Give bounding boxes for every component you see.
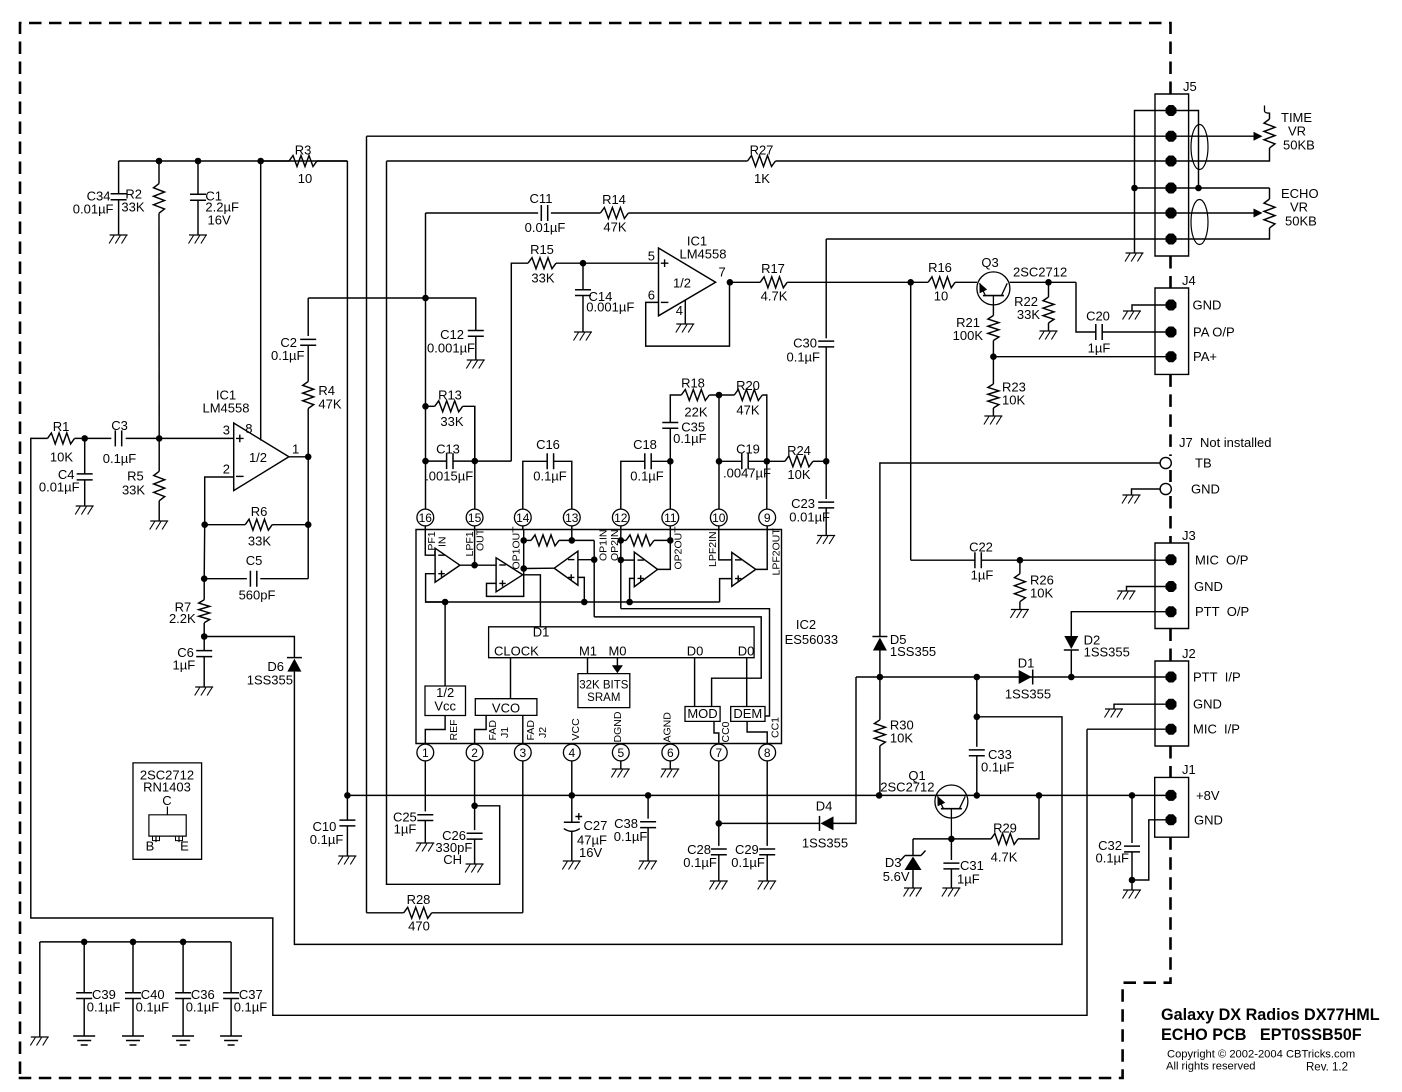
label LPF1 IN xyxy=(426,531,449,556)
label OP1IN OP2IN xyxy=(597,529,621,561)
capacitor C22 xyxy=(969,540,1171,583)
amp E plus riser from bus xyxy=(720,579,732,602)
capacitor C19 xyxy=(719,442,771,481)
svg-text:0.1µF: 0.1µF xyxy=(186,1000,220,1015)
svg-text:C30: C30 xyxy=(793,336,817,351)
wire C2 top to C12 node xyxy=(308,297,425,299)
svg-text:C3: C3 xyxy=(111,418,128,433)
ground C6 xyxy=(195,687,214,696)
label J1 pins xyxy=(1194,788,1223,827)
amp A plus riser to bus xyxy=(426,574,446,602)
connector J4 box xyxy=(1155,273,1196,374)
svg-text:1/2: 1/2 xyxy=(249,450,267,465)
op-amp D xyxy=(634,552,657,587)
resistor R2 xyxy=(121,161,164,215)
wire J2 GND xyxy=(1114,704,1171,709)
connector J1 box xyxy=(1155,762,1196,837)
svg-text:33K: 33K xyxy=(1017,307,1040,322)
svg-text:D1: D1 xyxy=(533,625,550,640)
ground C1 xyxy=(189,235,208,244)
svg-text:R18: R18 xyxy=(681,376,705,391)
svg-text:DEM: DEM xyxy=(733,706,762,721)
amp D output wire xyxy=(658,540,671,569)
IC2 pin 11 circle xyxy=(662,509,679,526)
wire CH loop to R27 line xyxy=(387,161,500,884)
svg-text:15: 15 xyxy=(468,511,482,525)
svg-text:Galaxy DX Radios DX77HML: Galaxy DX Radios DX77HML xyxy=(1161,1006,1380,1024)
node R18-R20-pin10 xyxy=(709,392,734,399)
J5 pin 5 xyxy=(1166,208,1177,219)
capacitor C14 xyxy=(575,263,634,332)
wire R27 line y161 xyxy=(387,160,748,162)
label J2 pins xyxy=(1193,670,1241,737)
ground R22 xyxy=(1039,331,1058,340)
wire MIC O/P line xyxy=(911,559,975,561)
svg-text:1SS355: 1SS355 xyxy=(247,673,293,688)
revision xyxy=(1306,1062,1348,1074)
wire pin3 FAD J2 drop xyxy=(522,761,524,913)
ground C34 xyxy=(109,235,128,244)
svg-text:0.001µF: 0.001µF xyxy=(586,300,634,315)
wire C12 node xyxy=(422,213,429,509)
svg-text:16V: 16V xyxy=(579,845,602,860)
resistor R15 xyxy=(528,242,659,286)
svg-text:7: 7 xyxy=(715,746,722,760)
svg-text:J7 Not installed: J7 Not installed xyxy=(1179,435,1272,450)
wire Q3 collector to R22 node xyxy=(1010,279,1076,286)
svg-text:D0: D0 xyxy=(687,643,704,658)
svg-text:1SS355: 1SS355 xyxy=(890,644,936,659)
resistor R13 xyxy=(422,388,475,462)
svg-text:4: 4 xyxy=(568,746,575,760)
svg-text:C20: C20 xyxy=(1086,309,1110,324)
IC2 top pin stubs xyxy=(425,526,767,530)
ground C37 earth xyxy=(220,1036,242,1045)
label LPF2IN xyxy=(707,531,719,567)
svg-text:REF: REF xyxy=(448,720,460,741)
svg-text:0.01µF: 0.01µF xyxy=(73,202,114,217)
label J3 pins xyxy=(1194,552,1249,619)
capacitor C27 electrolytic xyxy=(564,795,608,861)
ground C36 earth xyxy=(172,1036,194,1045)
J3 pin GND xyxy=(1166,581,1177,592)
svg-text:J2: J2 xyxy=(1182,646,1196,661)
node IC1b output xyxy=(727,279,734,286)
label OP1OUT xyxy=(510,526,522,570)
svg-text:10K: 10K xyxy=(1030,586,1053,601)
svg-text:16: 16 xyxy=(419,511,433,525)
J3 pin MIC O/P xyxy=(1166,554,1177,565)
wire D6 to bottom bus xyxy=(294,672,1062,945)
diode D3 zener 5.6V xyxy=(883,839,926,888)
svg-text:8: 8 xyxy=(245,421,252,436)
wire D4 line xyxy=(719,822,820,824)
svg-text:5.6V: 5.6V xyxy=(883,869,910,884)
ground C23 xyxy=(817,536,836,545)
wire pin11 riser xyxy=(669,429,671,510)
svg-text:R24: R24 xyxy=(787,443,811,458)
capacitor C26 xyxy=(435,828,482,867)
svg-text:2: 2 xyxy=(471,746,478,760)
label AGND pin6 xyxy=(661,712,673,743)
node C3-R5 junction xyxy=(156,435,163,442)
svg-text:R14: R14 xyxy=(602,192,626,207)
ground pin6 AGND xyxy=(661,769,680,778)
wire J5 pin6 ECHO bottom xyxy=(1171,228,1270,239)
IC2 bottom pin stubs xyxy=(425,743,767,746)
title ECHO PCB EPT0SSB50F xyxy=(1161,1026,1362,1044)
wire D4 to PTT corner xyxy=(834,677,857,823)
wire C20 branch xyxy=(1076,282,1096,332)
node rail junctions xyxy=(344,792,1135,799)
amp E output to pin9 xyxy=(756,530,767,570)
wire 1/2Vcc riser xyxy=(444,602,446,686)
svg-text:FAD: FAD xyxy=(487,720,499,741)
svg-text:13: 13 xyxy=(565,511,579,525)
capacitor C13 xyxy=(422,442,511,484)
svg-text:R28: R28 xyxy=(407,892,431,907)
connector J7 GND pin xyxy=(1160,483,1171,494)
svg-text:CLOCK: CLOCK xyxy=(494,643,539,658)
svg-text:PA+: PA+ xyxy=(1193,349,1217,364)
svg-text:0.1µF: 0.1µF xyxy=(103,451,137,466)
transistor package box 2SC2712 RN1403 xyxy=(133,763,202,859)
label VCC pin4 xyxy=(570,718,582,741)
svg-text:C11: C11 xyxy=(530,191,553,206)
svg-text:GND: GND xyxy=(1193,697,1222,712)
ground C40 earth xyxy=(122,1036,144,1045)
diode D2 1SS355 xyxy=(1064,633,1130,660)
J5 pin 4 xyxy=(1166,183,1177,194)
wire R2 bottom to C3 node xyxy=(158,213,160,438)
wire pin13 stub xyxy=(571,530,573,541)
cable ellipse TIME xyxy=(1191,125,1208,170)
svg-text:FAD: FAD xyxy=(525,720,537,741)
op-amp LPF2 E xyxy=(732,552,756,586)
ground J7 GND xyxy=(1122,495,1141,504)
capacitor C20 xyxy=(1086,309,1171,356)
transistor Q1 2SC2712 xyxy=(880,768,968,839)
wire M1 to SRAM xyxy=(587,658,589,674)
wire pin12 vertical OP2IN xyxy=(618,530,625,609)
wire pin2 to C26 xyxy=(471,761,478,830)
wire TB line xyxy=(880,463,1160,637)
svg-text:R16: R16 xyxy=(928,260,952,275)
svg-text:6: 6 xyxy=(667,746,674,760)
svg-text:10: 10 xyxy=(298,171,312,186)
ground C25 xyxy=(416,843,435,852)
svg-text:1K: 1K xyxy=(754,171,770,186)
J2 pin MIC I/P xyxy=(1166,724,1177,735)
svg-text:LM4558: LM4558 xyxy=(203,401,250,416)
wire REF to pin1 xyxy=(425,716,445,745)
half Vcc box xyxy=(425,685,466,716)
svg-text:Q3: Q3 xyxy=(981,255,998,270)
svg-text:16V: 16V xyxy=(208,213,231,228)
wire IC1b output y282 xyxy=(730,281,760,283)
svg-text:0.01µF: 0.01µF xyxy=(789,510,830,525)
svg-text:SRAM: SRAM xyxy=(587,692,620,704)
svg-text:0.1µF: 0.1µF xyxy=(981,760,1015,775)
wire pin4 VCC to rail xyxy=(571,761,573,795)
wire pin10 stub LPF2IN xyxy=(719,530,732,560)
board outline dashed border xyxy=(20,23,1171,1078)
svg-text:Vcc: Vcc xyxy=(434,699,456,714)
svg-text:14: 14 xyxy=(516,511,530,525)
ground C28 xyxy=(709,881,728,890)
op-amp IC1 pin1-2-3 half xyxy=(203,388,300,491)
wire J1 GND to C32 node xyxy=(1132,820,1171,880)
resistor R30 xyxy=(874,677,913,795)
wire R6 node down to C5 xyxy=(203,525,206,579)
svg-text:5: 5 xyxy=(648,249,655,264)
J2 pin GND xyxy=(1166,699,1177,710)
capacitor C4 xyxy=(39,438,93,506)
diode D4 1SS355 xyxy=(802,799,848,851)
wire IC1a output xyxy=(289,454,312,461)
wire J5 pin1 to pin4 right link xyxy=(1171,111,1202,192)
ground C32 xyxy=(1123,890,1142,899)
wire pin5 ground stub xyxy=(620,761,622,769)
resistor R3 xyxy=(261,143,348,187)
node rail dots xyxy=(156,158,264,165)
svg-text:CC0: CC0 xyxy=(720,721,732,742)
svg-text:E: E xyxy=(180,839,189,854)
svg-text:47K: 47K xyxy=(736,403,759,418)
wire pin1 to C25 xyxy=(424,761,426,811)
svg-text:TB: TB xyxy=(1195,456,1212,471)
svg-text:R20: R20 xyxy=(736,378,760,393)
connector J7 TB pin xyxy=(1160,457,1171,468)
ground J2 GND xyxy=(1105,709,1124,718)
capacitor C16 xyxy=(523,437,572,509)
svg-text:R15: R15 xyxy=(530,242,554,257)
svg-text:12: 12 xyxy=(614,511,628,525)
wire pin7 drop to C28 xyxy=(716,761,723,846)
svg-text:C18: C18 xyxy=(633,437,657,452)
label DGND pin5 xyxy=(612,711,624,742)
IC2 ES56033 box xyxy=(416,530,838,744)
svg-text:IC2: IC2 xyxy=(796,617,816,632)
J5 pin 2 xyxy=(1166,131,1177,142)
ground J4 GND xyxy=(1123,311,1142,320)
svg-text:C13: C13 xyxy=(436,442,460,457)
label CC0 xyxy=(720,721,732,742)
svg-text:10: 10 xyxy=(712,511,726,525)
svg-text:1: 1 xyxy=(422,746,429,760)
resistor R18 xyxy=(681,376,709,420)
wire R7 node to D6 xyxy=(204,637,294,658)
svg-text:9: 9 xyxy=(764,511,771,525)
svg-text:C5: C5 xyxy=(246,553,263,568)
wire bypass bank bus xyxy=(40,939,231,946)
svg-text:R29: R29 xyxy=(993,821,1017,836)
svg-text:C16: C16 xyxy=(536,437,560,452)
svg-text:1µF: 1µF xyxy=(957,872,980,887)
svg-text:1µF: 1µF xyxy=(173,658,196,673)
amp C plus riser xyxy=(578,577,584,602)
label OP2OUT xyxy=(672,526,684,570)
diode D1 1SS355 xyxy=(1005,656,1051,702)
label REF xyxy=(448,720,460,741)
svg-text:M1: M1 xyxy=(579,643,597,658)
IC2 pin 2 circle xyxy=(466,744,483,761)
svg-text:1µF: 1µF xyxy=(394,822,417,837)
IC2 pin 13 circle xyxy=(563,509,580,526)
svg-text:4: 4 xyxy=(676,303,683,318)
capacitor C32 xyxy=(1095,795,1140,890)
capacitor C30 xyxy=(786,239,834,461)
svg-text:MIC O/P: MIC O/P xyxy=(1195,552,1248,567)
svg-text:0.1µF: 0.1µF xyxy=(1095,851,1129,866)
svg-text:470: 470 xyxy=(408,919,430,934)
wire D2 to PTT I/P line xyxy=(1070,650,1072,677)
capacitor C35 xyxy=(662,395,706,446)
wire ECHO VR wiper line y213 xyxy=(426,212,539,214)
amp B plus feedback loop xyxy=(487,575,524,597)
wire D1 riser xyxy=(523,575,541,627)
connector J5 box xyxy=(1155,79,1197,256)
svg-text:0.1µF: 0.1µF xyxy=(786,350,820,365)
svg-text:33K: 33K xyxy=(122,483,145,498)
svg-text:B: B xyxy=(146,839,155,854)
svg-text:2SC2712: 2SC2712 xyxy=(1013,265,1067,280)
svg-text:10K: 10K xyxy=(1002,393,1025,408)
op-amp LPF1 A xyxy=(435,548,460,582)
IC2 pin 9 circle xyxy=(759,509,776,526)
svg-text:J1: J1 xyxy=(1182,762,1196,777)
svg-text:10: 10 xyxy=(934,289,948,304)
wire J5 pin5 ECHO wiper xyxy=(1171,212,1254,214)
svg-text:0.1µF: 0.1µF xyxy=(136,1000,170,1015)
svg-text:4.7K: 4.7K xyxy=(991,850,1018,865)
svg-text:1SS355: 1SS355 xyxy=(1005,687,1051,702)
IC2 pin 6 circle xyxy=(662,744,679,761)
svg-text:OP1OUT: OP1OUT xyxy=(510,526,522,570)
svg-text:R3: R3 xyxy=(295,143,312,158)
capacitor C23 xyxy=(789,461,834,535)
svg-text:0.01µF: 0.01µF xyxy=(39,480,80,495)
capacitor C18 xyxy=(621,437,674,509)
resistor R16 xyxy=(928,260,955,304)
potentiometer TIME VR 50KB xyxy=(1254,106,1315,153)
capacitor C1 xyxy=(190,161,239,235)
internal resistor pins14-13 xyxy=(524,535,595,546)
capacitor C38 xyxy=(614,795,656,861)
svg-text:VR: VR xyxy=(1288,124,1306,139)
svg-text:.0047µF: .0047µF xyxy=(723,466,771,481)
resistor R29 xyxy=(991,795,1039,864)
svg-text:0.1µF: 0.1µF xyxy=(310,832,344,847)
copyright line xyxy=(1167,1049,1355,1061)
svg-text:47K: 47K xyxy=(603,220,626,235)
capacitor C36 xyxy=(175,942,219,1036)
wire R1 input from MIC I/P xyxy=(31,438,1087,1015)
ground R5 xyxy=(150,521,169,530)
ground IC1b pin4 xyxy=(676,324,695,333)
J4 pin GND xyxy=(1166,300,1177,311)
resistor R22 xyxy=(1014,282,1054,331)
IC2 pin 8 circle xyxy=(759,744,776,761)
transistor Q3 2SC2712 xyxy=(977,255,1067,305)
capacitor C28 xyxy=(683,842,727,881)
J3 pin PTT O/P xyxy=(1166,606,1177,617)
svg-text:10K: 10K xyxy=(787,467,810,482)
svg-text:J1: J1 xyxy=(499,727,511,738)
svg-text:C: C xyxy=(162,793,171,808)
wire PTT O/P to D2 xyxy=(1071,612,1171,636)
svg-text:C27: C27 xyxy=(584,818,608,833)
svg-text:100K: 100K xyxy=(953,328,984,343)
svg-text:47K: 47K xyxy=(318,397,341,412)
svg-text:22K: 22K xyxy=(684,405,707,420)
svg-text:R6: R6 xyxy=(251,504,268,519)
svg-text:R17: R17 xyxy=(761,261,785,276)
wire pin9 riser xyxy=(766,461,768,509)
wire M0 arrow to SRAM xyxy=(612,658,623,674)
resistor R26 xyxy=(1014,560,1053,609)
svg-text:1µF: 1µF xyxy=(1088,341,1111,356)
wire C33 branch xyxy=(974,677,981,747)
ground C4 xyxy=(75,506,94,515)
svg-text:C22: C22 xyxy=(969,540,993,555)
resistor R17 xyxy=(760,261,787,304)
capacitor C11 xyxy=(525,191,601,235)
svg-text:4.7K: 4.7K xyxy=(761,289,788,304)
wire IC1b feedback loop xyxy=(646,282,730,346)
wire VCO FAD J2 to pin3 xyxy=(522,715,524,744)
svg-text:2: 2 xyxy=(223,462,230,477)
svg-text:CC1: CC1 xyxy=(769,717,781,738)
wire pin15 riser xyxy=(474,406,476,509)
svg-text:PTT O/P: PTT O/P xyxy=(1195,604,1249,619)
svg-text:0.1µF: 0.1µF xyxy=(673,431,707,446)
wire CLOCK to VCO xyxy=(510,658,512,699)
svg-text:10K: 10K xyxy=(890,731,913,746)
svg-text:OP2IN: OP2IN xyxy=(609,529,621,561)
node R21 bottom PA+ xyxy=(990,341,997,361)
svg-text:GND: GND xyxy=(1193,298,1222,313)
capacitor C40 xyxy=(125,942,169,1036)
connector J3 box xyxy=(1155,528,1196,629)
IC2 pin 7 circle xyxy=(710,744,727,761)
ground pin5 DGND xyxy=(611,769,630,778)
resistor R21 xyxy=(953,305,999,343)
label CC1 xyxy=(769,717,781,738)
wire pin15 stub xyxy=(474,530,476,566)
wire J7 GND xyxy=(1132,489,1161,495)
svg-text:0.1µF: 0.1µF xyxy=(731,855,765,870)
svg-text:GND: GND xyxy=(1194,812,1223,827)
IC2 pin 14 circle xyxy=(514,509,531,526)
svg-text:J3: J3 xyxy=(1182,528,1196,543)
svg-text:IN: IN xyxy=(436,537,448,548)
wire MIC I/P xyxy=(1087,728,1171,730)
svg-text:ECHO PCB EPT0SSB50F: ECHO PCB EPT0SSB50F xyxy=(1161,1026,1362,1044)
wire pin10 riser xyxy=(716,395,723,509)
resistor R24 xyxy=(767,443,830,482)
wire J5 pin6 line y239 xyxy=(826,238,1171,240)
wire pin11 vertical OP2OUT xyxy=(669,530,671,541)
wire bank left ground leg xyxy=(39,942,41,1037)
wire D0 to MOD xyxy=(694,658,696,707)
VCO box xyxy=(475,699,537,716)
connector J2 box xyxy=(1155,646,1196,746)
wire IC1b pin4 ground stub xyxy=(684,301,686,325)
ground C29 xyxy=(758,881,777,890)
J5 pin 6 xyxy=(1166,234,1177,245)
svg-text:GND: GND xyxy=(1191,482,1220,497)
